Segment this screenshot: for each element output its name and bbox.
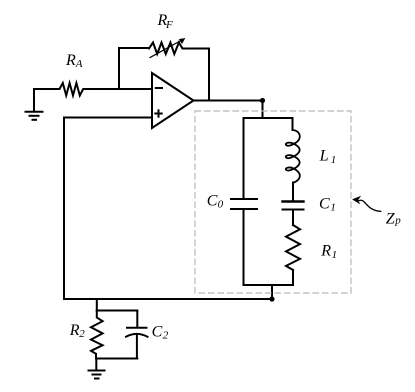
capacitor C2 [126, 311, 148, 359]
label Zp with arrow [353, 196, 381, 211]
svg-text:L: L [319, 148, 329, 165]
wire R2C2 tap [96, 299, 98, 311]
label C0 [207, 192, 224, 210]
svg-text:R: R [320, 243, 331, 260]
label RA [65, 52, 83, 70]
wire feedback left vertical [118, 48, 120, 89]
node bottom junction [269, 296, 274, 301]
wire C1 to R1 [292, 211, 294, 226]
wire left vertical [63, 118, 65, 300]
wire op-amp output [194, 100, 263, 102]
wire crystal top [244, 117, 293, 119]
wire C0 lower [243, 210, 245, 285]
label R2 [69, 322, 85, 340]
label L1 [319, 148, 337, 166]
ground GND2 [89, 359, 105, 379]
wire output to crystal top [262, 101, 264, 119]
svg-text:C: C [152, 324, 163, 341]
inductor L1 [286, 130, 300, 183]
label R1 [320, 243, 337, 261]
op-amp U1 [152, 73, 194, 128]
svg-text:p: p [394, 214, 401, 226]
wire R2C2 top [97, 310, 138, 312]
svg-text:1: 1 [330, 202, 336, 214]
wire feedback top left [119, 47, 149, 49]
resistor R2 [91, 311, 103, 359]
wire L1 to C1 [292, 183, 294, 201]
wire C0 upper [243, 118, 245, 198]
ground GND1 [26, 90, 43, 120]
wire bottom main [64, 298, 272, 300]
svg-text:R: R [65, 52, 76, 69]
resistor RF (variable) [149, 39, 209, 58]
label RF [157, 12, 174, 31]
capacitor C0 [231, 199, 257, 209]
svg-text:F: F [165, 19, 173, 31]
wire L1 upper [292, 118, 294, 130]
resistor RA [34, 83, 152, 96]
dashed box Zp network [195, 111, 351, 293]
wire crystal bottom tap [271, 285, 273, 299]
wire crystal bottom [244, 284, 294, 286]
resistor R1 [286, 225, 300, 270]
capacitor C1 [283, 202, 304, 210]
svg-text:0: 0 [218, 199, 224, 211]
wire plus input [64, 117, 152, 119]
svg-text:2: 2 [79, 328, 85, 340]
svg-text:C: C [207, 192, 218, 209]
svg-text:1: 1 [332, 249, 338, 261]
node output junction [260, 98, 265, 103]
wire feedback right vertical [208, 49, 210, 101]
label C1 [319, 196, 336, 214]
svg-text:R: R [69, 322, 80, 339]
label C2 [152, 324, 169, 342]
wire R1 lower [292, 270, 294, 285]
svg-text:2: 2 [163, 330, 169, 342]
svg-text:C: C [319, 196, 330, 213]
svg-text:A: A [75, 58, 83, 70]
svg-text:1: 1 [331, 154, 337, 166]
wire R2C2 bottom [96, 358, 137, 360]
